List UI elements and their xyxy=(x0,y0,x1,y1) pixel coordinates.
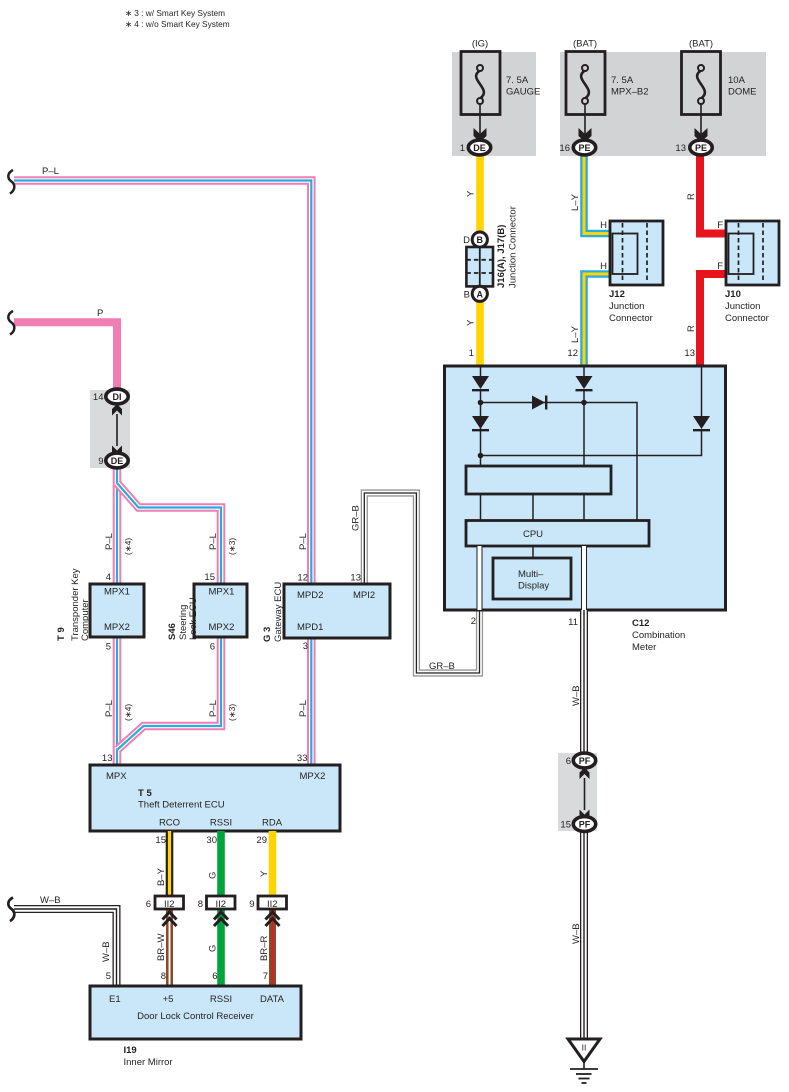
svg-text:MPX–B2: MPX–B2 xyxy=(611,87,649,98)
fuse 10A DOME (BAT) xyxy=(682,39,757,143)
internal wire CPU to pin 11 xyxy=(581,546,587,610)
connector II2 pin 9 xyxy=(249,896,286,926)
svg-text:J10: J10 xyxy=(725,289,741,300)
wire B-Y from T5 pin 15 to II2 xyxy=(166,831,174,902)
svg-text:W–B: W–B xyxy=(571,923,582,944)
svg-text:P–L: P–L xyxy=(104,700,115,717)
continuation squiggle P-L xyxy=(8,170,14,194)
svg-text:R: R xyxy=(686,325,697,332)
svg-text:15: 15 xyxy=(204,572,215,583)
svg-text:(∗3): (∗3) xyxy=(227,704,237,721)
svg-text:A: A xyxy=(477,289,484,299)
svg-text:P–L: P–L xyxy=(298,533,309,550)
svg-text:B: B xyxy=(477,235,484,245)
wire W-B from left to I19 pin 5 xyxy=(14,909,117,986)
ECU G3 Gateway ECU xyxy=(262,573,390,653)
svg-text:GR–B: GR–B xyxy=(429,661,455,672)
svg-text:P–L: P–L xyxy=(208,700,219,717)
wire L-Y from fuse 16 to J12 pin H xyxy=(584,150,611,234)
svg-text:DE: DE xyxy=(473,143,486,153)
svg-text:W–B: W–B xyxy=(571,685,582,706)
wire G from T5 pin 30 to II2 xyxy=(217,831,225,902)
junction node C xyxy=(478,453,484,459)
svg-text:PF: PF xyxy=(579,756,591,766)
svg-text:Gateway ECU: Gateway ECU xyxy=(273,582,284,642)
svg-text:12: 12 xyxy=(297,573,308,584)
note smart key legend xyxy=(125,8,230,29)
svg-text:CPU: CPU xyxy=(523,529,543,540)
wire R from J10 pin F to C12 pin 13 xyxy=(700,274,727,367)
svg-text:Lock ECU: Lock ECU xyxy=(188,597,199,640)
wire R from fuse 13 to J10 pin F xyxy=(700,150,727,234)
svg-text:II2: II2 xyxy=(216,899,227,910)
fuse block background BAT xyxy=(560,52,766,156)
svg-text:L–Y: L–Y xyxy=(570,325,581,343)
ECU T9 Transponder Key Computer xyxy=(56,568,144,652)
svg-text:6: 6 xyxy=(212,971,217,982)
svg-text:Theft Deterrent ECU: Theft Deterrent ECU xyxy=(138,800,225,811)
svg-text:11: 11 xyxy=(568,617,578,628)
combination meter C12 box xyxy=(445,366,726,610)
svg-text:14: 14 xyxy=(93,392,104,403)
continuation squiggle P xyxy=(8,311,14,335)
svg-text:RSSI: RSSI xyxy=(210,818,232,829)
junction connector J10 xyxy=(717,220,779,324)
fuse 7.5A GAUGE (IG) xyxy=(461,39,540,143)
svg-text:(∗4): (∗4) xyxy=(123,704,133,721)
svg-text:H: H xyxy=(600,220,607,231)
svg-text:RCO: RCO xyxy=(159,818,180,829)
ground point II xyxy=(568,1039,600,1083)
svg-text:6: 6 xyxy=(566,756,571,767)
receiver I19 Door Lock Control Receiver xyxy=(90,986,301,1068)
diode D4 xyxy=(693,366,710,430)
svg-text:8: 8 xyxy=(161,971,166,982)
svg-text:G: G xyxy=(208,945,219,952)
svg-text:MPD1: MPD1 xyxy=(297,622,323,633)
svg-text:E1: E1 xyxy=(109,994,121,1005)
ECU T5 Theft Deterrent ECU xyxy=(90,753,340,831)
svg-text:13: 13 xyxy=(684,348,695,359)
svg-text:W–B: W–B xyxy=(101,941,112,962)
svg-text:Multi–: Multi– xyxy=(518,569,544,580)
svg-text:G: G xyxy=(208,872,219,879)
junction connector J12 xyxy=(600,220,663,324)
svg-text:MPX2: MPX2 xyxy=(209,622,235,633)
svg-text:P–L: P–L xyxy=(298,700,309,717)
svg-text:F: F xyxy=(717,261,723,272)
svg-text:Combination: Combination xyxy=(632,630,685,641)
svg-text:C12: C12 xyxy=(632,618,649,629)
svg-text:MPI2: MPI2 xyxy=(353,590,375,601)
svg-text:3: 3 xyxy=(303,641,308,652)
svg-text:9: 9 xyxy=(98,456,103,467)
svg-text:16: 16 xyxy=(559,143,570,154)
svg-text:BR–W: BR–W xyxy=(156,934,167,961)
svg-text:MPX1: MPX1 xyxy=(104,587,130,598)
wire GR-B from G3 pin 13 to C12 pin 2 xyxy=(364,493,479,673)
connector DE pin 1 xyxy=(460,140,491,155)
svg-text:Junction Connector: Junction Connector xyxy=(508,206,519,288)
svg-text:5: 5 xyxy=(106,971,111,982)
svg-text:S46: S46 xyxy=(167,623,178,640)
wire G from II2 to I19 pin 6 xyxy=(217,907,225,986)
wire stubs to CPU xyxy=(481,494,585,521)
svg-text:L–Y: L–Y xyxy=(570,193,581,211)
svg-text:7: 7 xyxy=(263,971,268,982)
svg-text:MPD2: MPD2 xyxy=(297,590,323,601)
svg-text:PF: PF xyxy=(579,820,591,830)
label C12 Combination Meter xyxy=(632,618,685,653)
wire node column pin 1 xyxy=(480,366,482,376)
svg-text:Connector: Connector xyxy=(725,313,769,324)
svg-text:P–L: P–L xyxy=(208,533,219,550)
svg-text:Door Lock Control Receiver: Door Lock Control Receiver xyxy=(137,1011,254,1022)
wire P-L from S46 pin 6 merging to T5 pin 13 xyxy=(118,637,222,750)
svg-text:I19: I19 xyxy=(124,1045,137,1056)
wire Y from fuse 1 to C12 pin 1 xyxy=(476,150,484,367)
wire to diode D2 xyxy=(481,403,638,521)
svg-text:Y: Y xyxy=(259,870,270,877)
multi-display block xyxy=(493,558,571,599)
svg-text:II: II xyxy=(582,1043,587,1053)
svg-text:B–Y: B–Y xyxy=(156,867,167,886)
svg-text:J12: J12 xyxy=(609,289,625,300)
svg-text:DI: DI xyxy=(113,392,122,402)
svg-text:∗ 3 : w/ Smart Key System: ∗ 3 : w/ Smart Key System xyxy=(125,8,225,18)
svg-text:(BAT): (BAT) xyxy=(573,39,597,50)
svg-text:MPX2: MPX2 xyxy=(104,622,130,633)
svg-text:9: 9 xyxy=(249,899,254,910)
svg-text:5: 5 xyxy=(106,642,111,653)
svg-text:13: 13 xyxy=(350,573,361,584)
svg-text:DOME: DOME xyxy=(728,87,757,98)
svg-text:15: 15 xyxy=(155,835,166,846)
svg-text:BR–R: BR–R xyxy=(259,936,270,961)
svg-text:2: 2 xyxy=(471,616,476,627)
continuation squiggle W-B xyxy=(8,898,14,922)
diode D2 horizontal xyxy=(532,396,546,410)
wire BR-W from II2 to I19 pin 8 xyxy=(166,907,173,986)
connector block DI/DE xyxy=(90,389,130,468)
svg-text:DATA: DATA xyxy=(260,994,285,1005)
svg-text:1: 1 xyxy=(460,143,465,154)
svg-text:(BAT): (BAT) xyxy=(689,39,713,50)
fuse 7.5A MPX-B2 (BAT) xyxy=(566,39,649,143)
svg-text:13: 13 xyxy=(102,753,113,764)
wire BR-R from II2 to I19 pin 7 xyxy=(269,907,276,986)
svg-text:(∗4): (∗4) xyxy=(123,538,133,555)
connector PE pin 16 xyxy=(559,140,595,155)
svg-text:PE: PE xyxy=(578,143,590,153)
junction node A xyxy=(478,400,484,406)
svg-text:Connector: Connector xyxy=(609,313,653,324)
wire P-L from connector DE to T9 and T5 pin 13 xyxy=(113,461,122,765)
svg-text:P–L: P–L xyxy=(42,166,59,177)
svg-text:6: 6 xyxy=(146,899,151,910)
svg-text:15: 15 xyxy=(560,820,571,831)
wire from node C to diode D4 xyxy=(481,430,702,456)
svg-text:1: 1 xyxy=(469,348,474,359)
svg-text:+5: +5 xyxy=(163,994,174,1005)
svg-text:F: F xyxy=(717,220,723,231)
svg-text:29: 29 xyxy=(256,835,267,846)
fuse block background IG xyxy=(452,52,536,156)
svg-text:GR–B: GR–B xyxy=(351,505,362,531)
svg-text:Y: Y xyxy=(466,190,477,197)
svg-text:8: 8 xyxy=(198,899,203,910)
CPU block xyxy=(466,521,649,547)
svg-text:Junction: Junction xyxy=(609,301,644,312)
svg-text:Y: Y xyxy=(466,319,477,326)
wire W-B from C12 pin 11 to ground xyxy=(580,610,588,1056)
svg-text:P: P xyxy=(97,308,103,319)
svg-text:Meter: Meter xyxy=(632,642,656,653)
svg-text:10A: 10A xyxy=(728,75,746,86)
wire P-L from top left to G3 pin 12 and T5 pin 33 xyxy=(14,181,311,766)
wire P from left to connector DI xyxy=(14,322,117,398)
svg-text:G 3: G 3 xyxy=(262,627,273,642)
connector II2 pin 8 xyxy=(198,896,235,926)
svg-text:T 5: T 5 xyxy=(138,788,152,799)
junction connector J16(A) J17(B) xyxy=(463,206,518,301)
svg-text:MPX1: MPX1 xyxy=(209,587,235,598)
svg-text:13: 13 xyxy=(675,143,686,154)
svg-text:W–B: W–B xyxy=(40,895,61,906)
svg-text:(∗3): (∗3) xyxy=(227,538,237,555)
svg-text:B: B xyxy=(464,289,470,300)
svg-text:12: 12 xyxy=(567,348,578,359)
svg-text:33: 33 xyxy=(297,753,308,764)
connector PE pin 13 xyxy=(675,140,712,155)
interface block rectangle xyxy=(466,466,611,494)
svg-text:∗ 4 : w/o Smart Key System: ∗ 4 : w/o Smart Key System xyxy=(125,19,230,29)
svg-text:DE: DE xyxy=(111,456,124,466)
svg-text:II2: II2 xyxy=(267,899,278,910)
svg-text:MPX2: MPX2 xyxy=(300,771,326,782)
ECU S46 Steering Lock ECU xyxy=(167,572,247,653)
wire Y from T5 pin 29 to II2 xyxy=(269,831,277,902)
internal wire CPU to pin 2 xyxy=(477,546,483,610)
connector block PF/PF xyxy=(558,753,597,831)
junction node B xyxy=(581,400,587,406)
svg-text:7. 5A: 7. 5A xyxy=(611,75,634,86)
svg-text:GAUGE: GAUGE xyxy=(506,87,540,98)
svg-text:4: 4 xyxy=(106,572,111,583)
svg-text:R: R xyxy=(686,193,697,200)
svg-text:RDA: RDA xyxy=(262,818,283,829)
svg-text:II2: II2 xyxy=(164,899,175,910)
svg-text:PE: PE xyxy=(695,143,707,153)
svg-text:Junction: Junction xyxy=(725,301,760,312)
svg-text:7. 5A: 7. 5A xyxy=(506,75,529,86)
diode D1 xyxy=(472,376,489,466)
svg-text:MPX: MPX xyxy=(106,771,127,782)
svg-text:J16(A), J17(B): J16(A), J17(B) xyxy=(496,225,507,288)
svg-text:RSSI: RSSI xyxy=(210,994,232,1005)
wire stub CPU to multi-display xyxy=(532,546,534,558)
svg-text:D: D xyxy=(463,235,470,246)
wire node column pin 12 xyxy=(576,366,593,466)
svg-text:Display: Display xyxy=(518,581,549,592)
svg-text:Inner Mirror: Inner Mirror xyxy=(124,1057,173,1068)
svg-text:T 9: T 9 xyxy=(56,627,67,641)
svg-text:6: 6 xyxy=(210,642,215,653)
svg-text:P–L: P–L xyxy=(104,533,115,550)
wire L-Y from J12 pin H to C12 pin 12 xyxy=(584,274,611,367)
svg-text:H: H xyxy=(600,261,607,272)
connector II2 pin 6 xyxy=(146,896,184,926)
svg-text:Computer: Computer xyxy=(80,599,91,641)
svg-text:30: 30 xyxy=(206,835,217,846)
wire P-L branch from DE to S46 pin 15 xyxy=(117,483,221,584)
svg-text:(IG): (IG) xyxy=(472,39,488,50)
diode D3 xyxy=(472,416,489,430)
